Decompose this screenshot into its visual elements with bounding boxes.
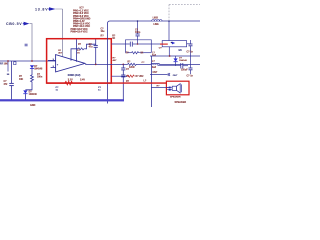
svg-text:1N4148: 1N4148 <box>29 93 38 96</box>
small component right edge upper <box>189 40 193 50</box>
junction top wire <box>168 20 170 22</box>
svg-text:120R: 120R <box>129 67 135 69</box>
wire right rail y=56 <box>150 55 200 57</box>
speaker symbol <box>167 84 182 93</box>
speaker box (red) <box>166 81 189 95</box>
dashed boundary line <box>169 5 200 22</box>
wire internal top loop with resistor <box>71 44 96 61</box>
svg-text:1N4148: 1N4148 <box>34 68 43 71</box>
wire power pin riser x=76.5 <box>76 39 78 61</box>
junction at x=32 on input rail <box>31 60 33 62</box>
wire vertical 13.8V rail to op-amp top <box>62 9 64 56</box>
diode D1 on CB rail <box>30 65 34 68</box>
IC voltage table text block <box>71 6 91 34</box>
svg-text:GND: GND <box>30 104 36 107</box>
svg-text:1K: 1K <box>112 38 115 40</box>
wire connector feed y=74.5 <box>150 74 168 76</box>
svg-text:10K: 10K <box>4 64 9 66</box>
red stub into filter box <box>160 43 168 45</box>
svg-text:47u: 47u <box>89 45 94 48</box>
node 13.8V label <box>35 7 48 11</box>
op-amp IC (triangle) <box>48 55 85 72</box>
riser to cap at x=137.5 <box>137 36 139 44</box>
svg-text:R? 2R2: R? 2R2 <box>136 76 145 78</box>
svg-text:CB0.5V: CB0.5V <box>6 22 22 26</box>
svg-text:1K: 1K <box>77 52 80 54</box>
net arrow CB0.5V <box>23 22 30 26</box>
junction output/cap <box>95 64 97 66</box>
svg-text:C? 1n: C? 1n <box>187 51 194 53</box>
svg-text:1K: 1K <box>140 53 143 55</box>
inductor L on output wire <box>151 63 160 65</box>
filter box component <box>162 41 186 56</box>
capacitor C in feedback <box>94 39 98 64</box>
resistor stub at x=8 <box>7 61 9 72</box>
diode D2 above bus <box>23 90 27 99</box>
small component right edge lower <box>189 56 193 74</box>
wire jog to diode D2 <box>25 83 32 89</box>
resistor R on output wire <box>128 63 138 65</box>
wire right y=65.7 <box>158 65 181 67</box>
svg-text:CN?: CN? <box>153 72 158 74</box>
junction riser top <box>137 20 139 22</box>
small pad component <box>14 62 16 65</box>
diode D right <box>174 56 178 66</box>
svg-text:220uF: 220uF <box>181 70 188 72</box>
junction output x=123.3 <box>122 64 124 66</box>
svg-text:IC601 (1/2): IC601 (1/2) <box>68 74 81 77</box>
svg-text:OUT: OUT <box>173 75 178 77</box>
red highlighted trace to speaker <box>47 82 167 84</box>
ground bus bottom <box>0 99 124 101</box>
svg-text:100n: 100n <box>37 77 43 79</box>
net arrow 13.8V <box>48 7 55 10</box>
capacitor C right series <box>181 63 188 68</box>
wire from 13.8V arrow to vertical <box>55 8 62 10</box>
wire left input rail y=61 <box>0 60 58 62</box>
red resistor on trace <box>65 82 73 85</box>
capacitor marking text <box>25 44 28 46</box>
wire from CB0.5V arrow down <box>30 24 33 61</box>
svg-text:R?: R? <box>101 35 105 38</box>
svg-text:10K: 10K <box>19 79 24 81</box>
highlight rectangle (red) around amplifier <box>47 39 112 83</box>
svg-text:10u: 10u <box>101 31 106 33</box>
wire speaker feed y=76 with red resistor <box>112 75 128 77</box>
connector pins <box>168 73 170 76</box>
stub below upper comp <box>190 50 192 56</box>
svg-text:LINE: LINE <box>153 24 159 26</box>
wire dropper x=123.3 with caps <box>121 64 125 100</box>
series capacitor on y=44 wire <box>130 42 133 47</box>
wire op-amp output <box>85 63 200 65</box>
wire channel-2 with resistor y=52.7 <box>127 52 151 54</box>
junction y44 x137.5 <box>137 43 139 45</box>
svg-text:100n: 100n <box>135 32 141 34</box>
resistor R vertical on x=32 <box>31 69 34 84</box>
resistor red highlighted <box>127 75 134 77</box>
node CB0.5V label <box>6 22 22 26</box>
wire feedback mid y=44 <box>111 43 162 45</box>
wire into speaker <box>151 86 168 88</box>
loop wire above channel-2 <box>126 40 152 53</box>
svg-text:SPEAKER: SPEAKER <box>170 96 181 99</box>
vertical right x=151.4 <box>150 56 152 107</box>
top wire y=21 with rounded corner <box>108 21 201 104</box>
wire dropper x=11.5 <box>11 61 13 83</box>
svg-text:SPEAKER: SPEAKER <box>175 101 187 104</box>
capacitor C upper <box>136 21 140 36</box>
junction at x=8 on input rail <box>7 60 9 62</box>
svg-text:L603: L603 <box>153 17 159 19</box>
svg-text:13.8V: 13.8V <box>35 7 48 11</box>
inductor L top <box>152 19 162 21</box>
svg-text:3.4V: 3.4V <box>80 79 85 82</box>
svg-text:1N4148: 1N4148 <box>179 59 187 62</box>
wire into filter box from top rail <box>168 21 170 41</box>
junction right rail <box>169 55 171 57</box>
capacitor C? on dropper <box>9 83 14 99</box>
svg-text:PIN9=13.4 VDC: PIN9=13.4 VDC <box>71 30 88 33</box>
svg-text:4.5: 4.5 <box>178 49 182 52</box>
svg-text:C? 1n: C? 1n <box>187 75 194 77</box>
wire filter box output <box>187 43 191 45</box>
